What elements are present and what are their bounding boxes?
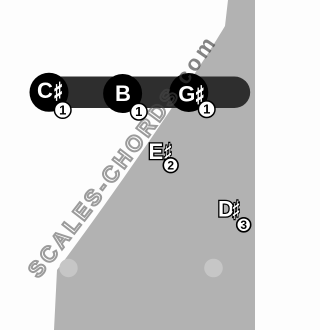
- svg-text:♯: ♯: [232, 196, 239, 221]
- finger badge 1 on C#: [54, 102, 71, 119]
- svg-text:1: 1: [59, 103, 66, 118]
- svg-text:2: 2: [167, 159, 174, 173]
- svg-text:E: E: [149, 139, 164, 164]
- note disc B: [103, 74, 142, 113]
- svg-text:1: 1: [203, 102, 210, 117]
- svg-text:D: D: [218, 197, 234, 222]
- svg-text:♯: ♯: [54, 78, 61, 103]
- finger badge 1 on G#: [198, 101, 215, 118]
- note disc G#: [169, 73, 208, 112]
- svg-text:G: G: [178, 82, 195, 107]
- svg-text:1: 1: [135, 104, 142, 119]
- open string dot right: [204, 259, 223, 278]
- open string dot left: [59, 259, 77, 277]
- finger badge 2 on E#: [163, 158, 178, 173]
- note disc C#: [30, 73, 69, 112]
- finger badge 3 on D#: [237, 218, 251, 232]
- svg-text:B: B: [115, 81, 131, 106]
- svg-text:3: 3: [240, 218, 247, 232]
- fret capsule (barre bar): [45, 77, 250, 109]
- gray veil over upper-right region (watermark clean stripe left of it): [54, 0, 255, 330]
- svg-text:C: C: [37, 78, 53, 103]
- finger badge 1 on B: [131, 103, 148, 120]
